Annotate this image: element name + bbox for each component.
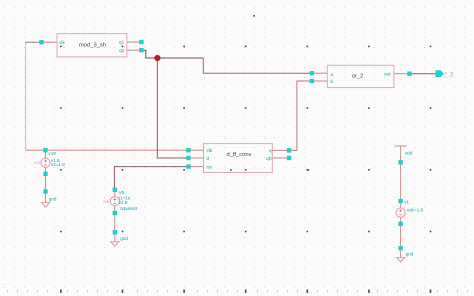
svg-text:qb: qb [266,156,272,162]
svg-text:vdd: vdd [405,151,413,156]
svg-text:q2: q2 [119,48,125,54]
svg-text:v1.8: v1.8 [119,200,128,205]
svg-text:mod_3_sh: mod_3_sh [79,43,106,49]
svg-text:b: b [331,79,334,85]
svg-text:q1: q1 [119,40,125,46]
svg-text:a: a [331,73,334,78]
svg-text:d_ff_conv: d_ff_conv [226,152,251,158]
svg-text:gnd: gnd [49,197,57,202]
svg-text:gnd: gnd [406,251,414,256]
svg-text:vdc=1.8: vdc=1.8 [407,207,424,212]
svg-text:/V5: /V5 [103,199,110,204]
svg-text:clk: clk [207,148,213,154]
svg-text:rst: rst [207,164,213,170]
svg-text:v1: v1 [404,200,409,205]
svg-text:out: out [384,72,391,78]
svg-text:gnd: gnd [120,236,128,241]
svg-text:f_3: f_3 [444,71,453,78]
svg-text:q: q [269,149,272,154]
svg-text:v2=1.8: v2=1.8 [51,162,65,167]
svg-text:V5: V5 [119,190,125,195]
svg-text:v18: v18 [48,151,56,156]
svg-text:d: d [207,156,210,162]
svg-text:clk: clk [59,40,65,46]
svg-text:or_2: or_2 [352,74,364,80]
svg-text:tvpulse2: tvpulse2 [120,206,138,211]
svg-text:/V2: /V2 [34,160,41,165]
